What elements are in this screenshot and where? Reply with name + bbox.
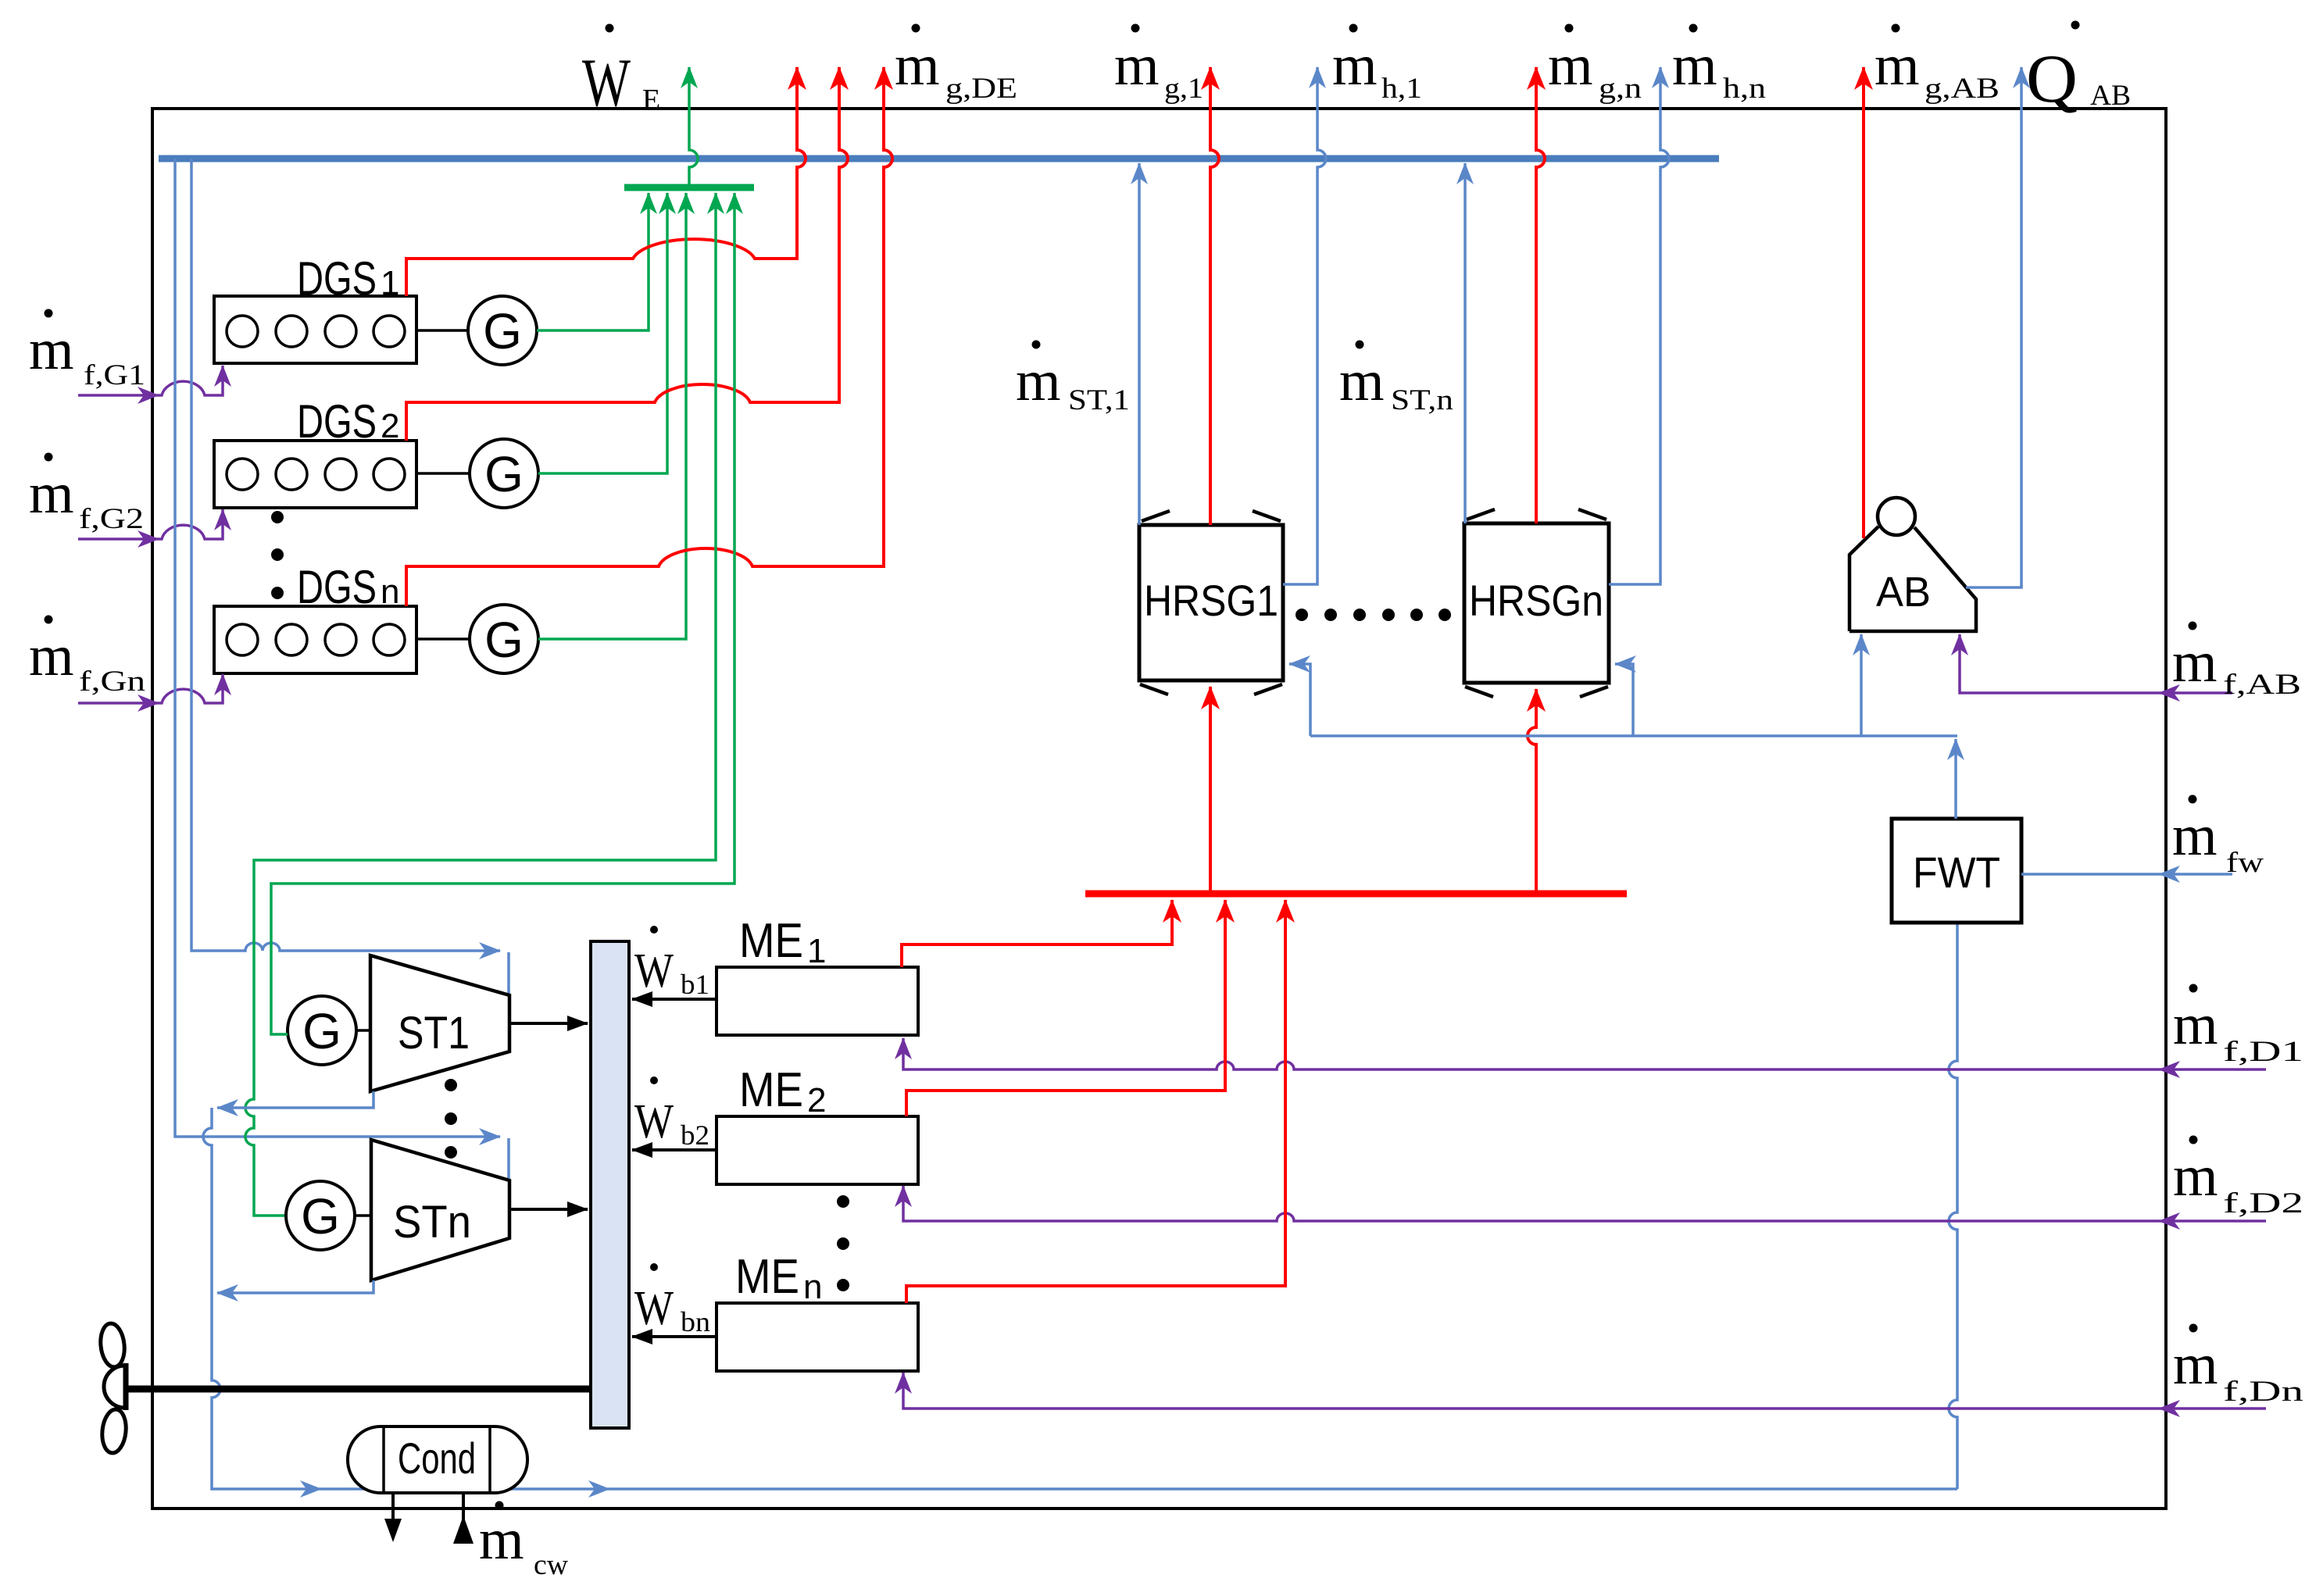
svg-text:b1: b1 [681, 969, 709, 1000]
svg-text:f,AB: f,AB [2223, 669, 2301, 701]
DGS1 generator shaft [416, 329, 468, 332]
svg-text:DGS: DGS [297, 252, 377, 305]
wire: feedwater header [1310, 734, 1957, 737]
svg-text:g,1: g,1 [1164, 73, 1203, 105]
HRSG1 corner ticks [1140, 511, 1282, 694]
wire: HRSG1 steam m_ST,1 to bus [1138, 163, 1141, 525]
label m_f,D1 [2173, 984, 2303, 1069]
label m_fw [2172, 795, 2264, 880]
label m_g,1 [1114, 24, 1203, 105]
svg-text:STn: STn [393, 1197, 471, 1248]
svg-text:bn: bn [681, 1306, 710, 1337]
label m_f,AB [2172, 622, 2301, 702]
auxiliary boiler AB body [1849, 527, 1976, 631]
svg-text:m: m [2173, 1333, 2218, 1397]
wire: feedwater into HRSGn [1615, 664, 1633, 736]
steam turbine ST1 [370, 955, 509, 1091]
svg-text:ME: ME [735, 1250, 799, 1304]
label DGS2 [297, 395, 399, 448]
label m_g,AB [1874, 24, 2000, 105]
main engine MEn [717, 1303, 918, 1371]
svg-text:m: m [2172, 804, 2218, 868]
svg-text:f,G2: f,G2 [79, 503, 144, 535]
svg-text:m: m [2172, 630, 2218, 694]
label Q_AB [2026, 21, 2131, 118]
svg-text:m: m [1114, 34, 1160, 98]
label m_h,1 [1332, 24, 1422, 105]
label m_g,n [1548, 24, 1642, 105]
arrowhead m_fw at boundary [2158, 866, 2180, 883]
label W_bn [634, 1263, 710, 1337]
main engine ME1 [717, 967, 918, 1035]
label ME2 [739, 1063, 826, 1119]
svg-text:G: G [483, 303, 522, 359]
svg-text:G: G [484, 612, 524, 668]
wire: ME1 exhaust to gas bus [902, 900, 1172, 967]
wire: steam feed to ST1 [191, 159, 500, 951]
fuel inlet m_f,G2 [78, 509, 223, 539]
wire: FWT to feedwater header [1954, 739, 1957, 819]
label W_b1 [634, 926, 709, 1000]
svg-text:2: 2 [807, 1081, 826, 1119]
wire: HRSGn heat m_h,n [1609, 67, 1669, 584]
svg-text:m: m [1548, 34, 1593, 98]
label m_f,Dn [2173, 1324, 2303, 1409]
label DGSn [297, 561, 399, 613]
svg-text:fw: fw [2226, 847, 2264, 879]
svg-text:1: 1 [807, 932, 826, 970]
brake power W_bn arrow [632, 1335, 717, 1338]
label m_f,Gn [29, 616, 145, 698]
wire: MEn exhaust to gas bus [906, 900, 1285, 1303]
wire: feedwater into HRSG1 [1289, 664, 1310, 736]
wire: HRSGn steam m_ST,n to bus [1463, 163, 1467, 523]
steam/heat bus (blue) [159, 155, 1719, 162]
svg-text:ME: ME [739, 1063, 803, 1117]
wire: gas bus to HRSG1 [1209, 687, 1212, 891]
svg-text:n: n [803, 1268, 822, 1306]
arrowhead m_f,D2 at boundary [2158, 1212, 2180, 1230]
steam turbine STn [371, 1140, 509, 1280]
arrowhead m_f,AB at boundary [2158, 684, 2180, 702]
svg-text:m: m [29, 318, 74, 382]
dots between HRSG1 and HRSGn [1296, 609, 1451, 621]
svg-text:f,Dn: f,Dn [2223, 1376, 2303, 1408]
svg-text:W: W [634, 1282, 674, 1335]
label m_f,G2 [29, 453, 144, 536]
DGS1 engine box [214, 296, 416, 363]
fuel inlet m_f,D2 [903, 1186, 2266, 1221]
wire: W_E electric output [689, 67, 698, 187]
svg-text:2: 2 [381, 407, 399, 445]
propeller shaft [127, 1386, 591, 1393]
svg-text:E: E [642, 84, 660, 116]
wire: steam feed to STn [175, 159, 500, 1137]
wire: DGS1 electric to bus [537, 193, 649, 330]
dots between ME2 and MEn [837, 1195, 849, 1291]
label m_ST,n [1339, 341, 1453, 417]
generator G of DGS2 [470, 439, 538, 508]
svg-text:f,Gn: f,Gn [79, 666, 145, 698]
svg-text:HRSGn: HRSGn [1469, 576, 1603, 625]
svg-text:G: G [301, 1188, 340, 1244]
DGSn cylinders [227, 624, 405, 655]
svg-text:ME: ME [739, 914, 803, 968]
svg-text:f,D1: f,D1 [2223, 1036, 2303, 1068]
DGSn engine box [214, 606, 416, 673]
svg-text:m: m [1339, 349, 1385, 413]
generator G of DGSn [470, 605, 538, 673]
generator G of STn [286, 1181, 355, 1250]
svg-text:m: m [479, 1508, 524, 1572]
svg-text:m: m [29, 624, 74, 688]
svg-text:h,1: h,1 [1381, 73, 1422, 105]
wire: HRSG1 heat m_h,1 [1283, 67, 1326, 584]
label m_g,DE [895, 24, 1017, 105]
label m_f,D2 [2173, 1136, 2303, 1220]
arrowhead m_f,G2 at boundary [138, 530, 159, 548]
svg-text:W: W [634, 1095, 674, 1148]
svg-text:FWT: FWT [1913, 848, 2000, 897]
wire: ST1 electric to bus [271, 193, 734, 1034]
DGS2 generator shaft [416, 472, 470, 475]
gearbox [591, 941, 629, 1428]
svg-text:ST,1: ST,1 [1068, 384, 1130, 416]
brake power W_b2 arrow [632, 1148, 717, 1151]
ST1 generator shaft [356, 1029, 370, 1032]
DGS2 engine box [214, 441, 416, 508]
condenser Cond [348, 1426, 527, 1493]
svg-text:n: n [381, 573, 399, 611]
svg-text:m: m [1332, 34, 1378, 98]
svg-text:m: m [1874, 34, 1920, 98]
electric bus (green) [624, 184, 754, 191]
wire: STn electric to bus [245, 193, 716, 1216]
svg-text:cw: cw [534, 1549, 568, 1581]
wire: gas bus to HRSGn [1528, 689, 1536, 891]
label m_h,n [1672, 24, 1766, 105]
wire: AB flue gas m_g,AB [1862, 67, 1865, 538]
HRSGn box [1464, 523, 1609, 683]
svg-text:HRSG1: HRSG1 [1144, 576, 1278, 625]
svg-text:m: m [895, 34, 940, 98]
wire: DGS2 exhaust [406, 67, 848, 441]
svg-text:ST1: ST1 [398, 1008, 470, 1059]
generator G of DGS1 [468, 296, 537, 365]
svg-text:g,DE: g,DE [945, 73, 1017, 105]
svg-text:G: G [302, 1003, 341, 1059]
wire: DGS2 electric to bus [538, 193, 667, 473]
wire: DGS1 exhaust [406, 67, 806, 296]
svg-text:W: W [582, 45, 631, 121]
label ME1 [739, 914, 826, 970]
DGSn generator shaft [416, 637, 470, 641]
AB steam drum circle [1878, 498, 1915, 535]
svg-text:AB: AB [2090, 80, 2131, 112]
svg-text:G: G [484, 446, 524, 502]
generator G of ST1 [288, 996, 356, 1065]
svg-text:m: m [1672, 34, 1717, 98]
propeller [98, 1323, 128, 1455]
arrowhead condensate after condenser [588, 1480, 610, 1498]
svg-text:DGS: DGS [297, 395, 377, 448]
fuel inlet m_f,Gn [78, 674, 223, 703]
wire: condensate downcomer to condenser and FWT [203, 1108, 1957, 1489]
svg-text:m: m [2173, 993, 2218, 1057]
fuel inlet m_f,AB [1960, 634, 2232, 693]
svg-text:g,n: g,n [1599, 73, 1642, 105]
STn generator shaft [355, 1214, 371, 1217]
DGS1 cylinders [227, 316, 405, 347]
arrowhead condensate before condenser [300, 1480, 322, 1498]
fuel inlet m_f,Dn [903, 1373, 2266, 1409]
wire: ME2 exhaust to gas bus [906, 900, 1225, 1116]
main engine ME2 [717, 1116, 918, 1184]
arrowhead m_f,Gn at boundary [138, 694, 159, 712]
arrowhead m_f,D1 at boundary [2158, 1061, 2180, 1078]
HRSGn corner ticks [1465, 509, 1608, 697]
fuel inlet m_f,G1 [78, 366, 223, 395]
svg-text:m: m [2173, 1144, 2218, 1209]
wire: HRSG1 stack gas m_g,1 [1210, 67, 1219, 525]
label m_cw [479, 1501, 568, 1582]
cooling water outlet arrow [384, 1493, 402, 1542]
system boundary [152, 109, 2166, 1509]
svg-text:g,AB: g,AB [1925, 73, 2000, 105]
dots between DGS2 and DGSn [271, 511, 284, 599]
wire: feedwater branch to AB [1860, 634, 1863, 736]
svg-text:W: W [634, 944, 674, 998]
dots between ST1 and STn [445, 1079, 457, 1159]
makeup water inlet m_fw [2021, 873, 2232, 876]
HRSG1 box [1139, 525, 1283, 680]
svg-text:f,D2: f,D2 [2223, 1187, 2303, 1219]
svg-text:ST,n: ST,n [1391, 384, 1453, 416]
wire: FWT feed riser [1949, 923, 1957, 1489]
wire: STn exhaust return [217, 1280, 373, 1293]
wire: ST1 exhaust return [217, 1091, 373, 1108]
label m_f,G1 [29, 309, 145, 392]
svg-text:b2: b2 [681, 1119, 709, 1151]
svg-text:DGS: DGS [297, 561, 377, 613]
arrowhead m_f,Dn at boundary [2158, 1400, 2180, 1417]
STn output shaft to gearbox [511, 1208, 588, 1211]
condenser end plates [384, 1426, 490, 1493]
ST1 output shaft to gearbox [511, 1022, 588, 1025]
svg-text:f,G1: f,G1 [84, 359, 145, 391]
label W_b2 [634, 1076, 709, 1151]
wire: HRSGn stack gas m_g,n [1536, 67, 1545, 523]
DGS2 cylinders [227, 459, 405, 490]
svg-text:1: 1 [381, 264, 399, 302]
svg-text:Q: Q [2026, 41, 2078, 117]
svg-text:AB: AB [1876, 569, 1931, 616]
wire: steam feed elbow into ST1 [507, 952, 510, 994]
brake power W_b1 arrow [632, 998, 717, 1001]
svg-text:Cond: Cond [398, 1434, 476, 1483]
arrowhead m_f,G1 at boundary [138, 387, 159, 404]
svg-text:m: m [1016, 349, 1061, 413]
cooling water inlet arrow m_cw [453, 1493, 474, 1544]
svg-text:h,n: h,n [1723, 73, 1766, 105]
label m_ST,1 [1016, 341, 1130, 417]
wire: DGSn electric to bus [538, 193, 686, 639]
wire: steam feed elbow into STn [507, 1138, 510, 1179]
wire: AB heat Q_AB [1966, 67, 2021, 587]
wire: DGSn exhaust [406, 67, 892, 606]
label DGS1 [297, 252, 399, 305]
svg-text:m: m [29, 462, 74, 526]
label W_E [582, 24, 660, 122]
label MEn [735, 1250, 822, 1306]
fuel inlet m_f,D1 [903, 1038, 2266, 1069]
feedwater tank FWT [1892, 819, 2021, 923]
exhaust gas bus (red) [1085, 891, 1627, 898]
